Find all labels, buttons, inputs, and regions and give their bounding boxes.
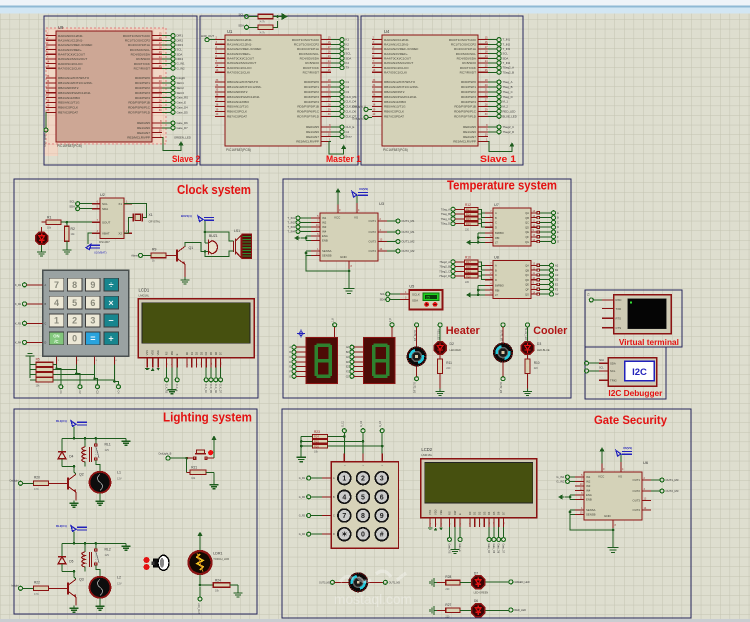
svg-text:RA3/AN3/VREF+: RA3/AN3/VREF+ [58,48,82,52]
svg-text:D: D [289,361,291,364]
resistor pack R5 [30,358,53,388]
node OUT2_M3 [651,489,679,493]
LED D7 [472,571,489,594]
wire SENS/GND to ground [569,510,615,544]
svg-text:RB7/ICSPDAT: RB7/ICSPDAT [227,115,247,119]
svg-text:RB4/AN11/KBI0: RB4/AN11/KBI0 [58,96,80,100]
svg-text:RE2/AN7: RE2/AN7 [463,135,476,139]
node 7Seg2_B [488,70,514,74]
node OUT1_M3 [651,478,679,482]
svg-text:SDA: SDA [69,205,75,209]
node SDA terminal (U5) [380,298,400,302]
frame: Slave 1 frame [361,16,523,165]
svg-text:K3: K3 [346,47,350,51]
node C3 [331,90,350,94]
svg-text:E: E [557,230,559,234]
frame: Temperature system frame [283,179,571,398]
svg-text:RD1/PSP1: RD1/PSP1 [304,85,319,89]
svg-text:D4: D4 [204,351,208,355]
svg-text:G_IN1: G_IN1 [177,62,186,66]
svg-text:D4: D4 [487,511,491,515]
node C (U7.QC) [539,220,559,224]
node CLK_D7 [331,114,357,118]
svg-text:0: 0 [361,532,365,539]
label Lighting system [163,411,252,425]
svg-text:Q3: Q3 [79,577,84,581]
svg-text:D: D [495,225,497,229]
svg-text:RD4/PSP4: RD4/PSP4 [461,100,476,104]
svg-text:7Seg2_D: 7Seg2_D [439,274,450,278]
svg-text:U2(VBAT): U2(VBAT) [94,251,107,255]
svg-text:RA2/AN2/VREF-/CVREF: RA2/AN2/VREF-/CVREF [384,47,418,51]
node F (U7.QF) [539,235,559,239]
node 7Seg_D [488,95,513,99]
svg-text:RB6/ICSPCLK: RB6/ICSPCLK [384,110,405,114]
wire button to power [213,440,215,458]
svg-text:LM016L: LM016L [421,453,432,457]
wire ENA/ENB to power [565,495,575,500]
svg-text:SCL: SCL [610,369,616,373]
resistor pack R23 [312,430,327,454]
diode D5 (flyback) [58,543,74,571]
svg-text:3: 3 [90,316,95,326]
svg-text:G_IN1: G_IN1 [556,475,565,479]
resistor SDA pull-up [238,24,273,35]
svg-text:L2: L2 [117,575,121,579]
svg-text:220: 220 [446,367,451,370]
frame: Slave 2 frame [44,16,197,165]
svg-text:SOUT: SOUT [102,220,111,224]
power bar for R5 [26,354,35,365]
node TX terminal (virtual terminal RXD) [588,293,603,302]
svg-text:SCL: SCL [599,367,604,370]
svg-text:RE0/AN5: RE0/AN5 [463,125,476,129]
svg-text:QF: QF [525,288,529,292]
svg-text:T_IN1: T_IN1 [287,216,295,220]
node InLight [11,584,33,590]
node DIR4 [162,57,183,61]
wire pull-ups to power [273,15,279,27]
svg-text:RC3/SCK/SCL: RC3/SCK/SCL [130,48,151,52]
node OUT1_M1 [387,219,415,223]
svg-text:QC: QC [525,273,529,277]
svg-text:RED_LED: RED_LED [514,609,526,612]
svg-text:RC0/T1OSO/T1CKI: RC0/T1OSO/T1CKI [449,38,476,42]
svg-text:7Seg2_D: 7Seg2_D [503,130,515,134]
svg-text:7Seg_B: 7Seg_B [441,212,451,216]
svg-text:E2: E2 [555,283,559,287]
node CLK_RS [331,95,357,99]
node Gate_D5 [162,110,188,114]
node 7seg1 D [289,360,306,364]
svg-text:VS: VS [618,475,622,479]
frame: Gate Security frame [282,409,691,618]
svg-text:RC6/TX/CK: RC6/TX/CK [303,66,320,70]
power symbol (LDR) [197,532,202,541]
svg-text:RA4/T0CKI/C1OUT: RA4/T0CKI/C1OUT [58,52,85,56]
svg-text:C: C [45,322,47,325]
wire Q1 collector to buzzer [185,242,204,251]
svg-text:K2: K2 [346,42,350,46]
svg-text:OUT2_M2: OUT2_M2 [402,249,415,253]
svg-text:✶: ✶ [341,531,347,539]
power symbol near U1 [341,145,346,154]
node CLK_D6 [331,109,357,113]
svg-text:D7: D7 [219,351,223,355]
frame: Lighting system frame [14,409,257,614]
svg-text:6: 6 [90,298,95,308]
svg-text:7Seg_C: 7Seg_C [441,217,451,221]
svg-text:E: E [458,513,462,515]
svg-text:CLK_D5: CLK_D5 [209,384,212,394]
resistor SCL pull-up [239,13,273,24]
svg-text:VDD: VDD [151,350,155,356]
svg-text:U3: U3 [379,201,385,206]
svg-text:LS1: LS1 [234,229,240,233]
svg-text:OUT2_M2: OUT2_M2 [499,382,502,394]
node Gate_D5 [492,538,496,554]
ground under Q3 [70,605,79,612]
frame: Clock system frame [14,179,258,398]
svg-text:R22: R22 [34,580,40,584]
svg-text:RA3/AN3/VREF+: RA3/AN3/VREF+ [227,52,251,56]
node SCL [488,52,508,56]
svg-text:RC7/RX/DT: RC7/RX/DT [134,66,150,70]
svg-text:C1: C1 [346,80,350,84]
svg-text:OUT1_M2: OUT1_M2 [499,330,502,342]
label Clock system [177,183,251,197]
svg-text:RED_LED: RED_LED [437,329,440,340]
svg-text:RA3/AN3/VREF+: RA3/AN3/VREF+ [384,52,408,56]
node keypad2 row G_R4 [299,532,335,536]
svg-text:BLUE_LED: BLUE_LED [524,328,527,340]
svg-text:D0: D0 [468,511,472,515]
svg-text:I2C Debugger: I2C Debugger [608,389,662,398]
svg-text:D3: D3 [482,511,486,515]
ground under LCD RW [450,547,459,554]
transistor Q3 [60,577,84,597]
node OUT1_M1 (motor top) [413,323,419,347]
svg-text:QG: QG [525,292,529,296]
svg-text:RE3/MCLR/VPP: RE3/MCLR/VPP [127,136,150,140]
svg-text:CRYSTAL: CRYSTAL [149,220,161,224]
svg-text:RD6/PSP6/P1C: RD6/PSP6/P1C [454,110,477,114]
svg-text:Gate_D7: Gate_D7 [502,544,505,554]
wire U2.VBAT down [88,233,92,244]
svg-text:CLK_D6: CLK_D6 [214,384,217,394]
node B2 (U8.QB) [539,268,558,272]
node Gate_E [458,538,462,553]
svg-text:SDA: SDA [177,52,183,56]
node keypad row K_R3 [15,321,46,325]
svg-text:VDD: VDD [434,509,438,515]
svg-text:Slave 2: Slave 2 [172,154,200,165]
node SCL terminal (I2C debugger) [585,369,600,373]
svg-text:D4: D4 [69,454,73,458]
svg-text:OUT1: OUT1 [633,478,641,482]
svg-text:220: 220 [445,588,450,591]
svg-text:BLUE_LED: BLUE_LED [503,114,517,118]
resistor R28 [437,575,471,591]
svg-text:M_1: M_1 [503,100,509,104]
svg-text:TX: TX [588,293,591,296]
svg-text:Q2: Q2 [79,472,84,476]
svg-text:K_R1: K_R1 [15,284,22,287]
svg-text:QA: QA [525,264,529,268]
resistor R21 [187,458,214,482]
RTC U2 DS1307 [92,193,132,244]
svg-text:OUT3_M3: OUT3_M3 [319,581,331,584]
power flag BUZ1(1) [181,214,214,222]
svg-text:5: 5 [72,298,77,308]
node SCL [162,48,182,52]
svg-text:U2: U2 [100,193,105,197]
node OutLight_A terminal at U4 [352,105,372,112]
svg-text:2: 2 [361,476,365,483]
svg-text:RA7/OSC1/CLKI: RA7/OSC1/CLKI [227,70,250,74]
svg-text:220: 220 [465,281,470,284]
svg-text:C4: C4 [346,130,350,134]
svg-text:RB1/AN10/INT1/C12IN3-: RB1/AN10/INT1/C12IN3- [384,85,419,89]
svg-text:IN4: IN4 [322,230,327,234]
svg-text:RA5/AN4/SS/C2OUT: RA5/AN4/SS/C2OUT [227,61,256,65]
svg-text:QE: QE [525,283,529,287]
svg-text:8: 8 [361,513,365,520]
svg-text:7Seg_D: 7Seg_D [441,222,451,226]
microcontroller U4 (PIC16F887) [372,29,488,152]
node CLK_D6 [214,378,218,394]
node K4 [331,61,349,65]
svg-text:RB5/AN13/T1G: RB5/AN13/T1G [384,105,406,109]
svg-text:RD5/PSP5/P1B: RD5/PSP5/P1B [454,105,476,109]
svg-text:R19: R19 [466,270,471,274]
svg-text:B2: B2 [555,268,559,272]
label Master 1 [326,154,362,165]
svg-text:Temperature system: Temperature system [447,179,557,193]
svg-text:RA6/OSC2/CLKO: RA6/OSC2/CLKO [58,62,83,66]
svg-text:×: × [108,298,113,308]
node 7seg1 F [290,369,306,373]
svg-text:T_IN4: T_IN4 [287,230,295,234]
svg-text:CLK_RS: CLK_RS [346,95,357,99]
svg-text:GND: GND [340,255,348,259]
svg-text:LCD1: LCD1 [139,287,150,292]
svg-text:BI/RBO: BI/RBO [495,231,504,235]
svg-text:Slave 1: Slave 1 [480,154,517,165]
motor M2 [493,343,513,363]
LDR LDR1 [189,551,230,574]
svg-text:9: 9 [90,280,95,290]
node 7Seg2_B [439,265,464,269]
node OUT1_M2 (motor top) [499,323,505,343]
node RED_LED (gate) [486,608,527,612]
node 7Seg_C [441,217,465,221]
svg-text:Virtual terminal: Virtual terminal [619,338,679,347]
svg-text:LT: LT [495,241,498,245]
node keypad2 row G_R1 [299,476,335,480]
svg-text:R21: R21 [191,465,197,469]
node T_IN2 [488,42,511,46]
svg-text:RC0/T1OSO/T1CKI: RC0/T1OSO/T1CKI [123,34,150,38]
svg-text:RA6/OSC2/CLKO: RA6/OSC2/CLKO [227,66,252,70]
svg-text:L1: L1 [117,470,121,474]
resistor pack R16 [465,256,479,285]
svg-text:#: # [380,532,384,539]
wire U8 lamp-test to power [477,285,485,296]
svg-text:OUT2_M3: OUT2_M3 [666,489,679,493]
svg-text:12V: 12V [117,581,122,585]
svg-text:RC3/SCK/SCL: RC3/SCK/SCL [299,52,320,56]
svg-text:C: C [333,515,335,518]
svg-text:/C: /C [54,339,58,344]
svg-text:OUT4: OUT4 [633,508,641,512]
svg-text:R25: R25 [314,440,319,444]
node T_IN4 [287,230,311,234]
svg-text:RC2/CCP1/P1A: RC2/CCP1/P1A [297,47,320,51]
node OutLight [9,479,33,485]
svg-text:R11: R11 [446,361,452,365]
svg-text:U8: U8 [494,256,499,260]
ground under LCD RW [167,387,176,394]
node Buzz [331,135,352,139]
svg-text:220: 220 [465,229,470,232]
node Gate_D4 [487,538,491,554]
resistor R1 [42,216,61,230]
LCD LCD1 (LM016L) [138,287,254,371]
svg-text:=: = [90,334,95,344]
svg-text:RC4/SDI/SDA: RC4/SDI/SDA [457,56,477,60]
svg-text:CLK_D4: CLK_D4 [204,384,207,394]
svg-text:CLK_D4: CLK_D4 [346,100,357,104]
resistor R22 [34,580,61,596]
svg-text:BUZ1: BUZ1 [209,234,218,238]
svg-text:RB6/ICSPCLK: RB6/ICSPCLK [58,106,79,110]
svg-text:SCL: SCL [239,13,245,17]
svg-text:12V: 12V [105,553,110,557]
svg-text:T_IN4: T_IN4 [503,61,511,65]
wire R23 to keypad columns [327,433,383,462]
origin marker [297,330,305,338]
svg-text:A2: A2 [555,263,559,267]
svg-text:U6: U6 [643,460,649,465]
node keypad column C2 [78,385,82,395]
transistor Q2 [60,472,84,492]
relay RL1 [73,438,111,467]
label GREEN_LED [174,135,191,139]
node E2 (U8.QE) [539,283,558,287]
svg-text:D2: D2 [450,342,454,346]
virtual terminal instrument [602,295,671,334]
node 7Seg2_A [488,66,514,70]
svg-text:RC3/SCK/SCL: RC3/SCK/SCL [456,52,477,56]
node 7seg1 A [289,345,306,349]
node keypad2 column G_C3 [380,420,384,432]
wire RE3 to power [162,137,181,150]
node 7seg1 E [289,365,306,369]
motor driver U6 (L298) [575,460,651,528]
node Gate_D6 [162,121,188,125]
svg-text:VCC: VCC [334,216,341,220]
node OUT2_M1 [387,230,415,234]
svg-text:1: 1 [54,316,59,326]
wire R23 commons to ground [300,437,312,455]
node K2 [331,42,349,46]
node SDA [162,52,182,56]
svg-text:M_2: M_2 [503,105,509,109]
svg-text:+: + [108,334,113,344]
svg-text:R1: R1 [47,216,51,220]
power symbol U3 VCC [335,188,340,205]
svg-text:CLK_E: CLK_E [175,384,178,392]
svg-text:Gate_RS: Gate_RS [448,544,451,554]
label Virtual terminal [619,338,679,347]
svg-text:RC6/TX/CK: RC6/TX/CK [134,62,151,66]
wire SENS/GND to ground [305,251,351,285]
svg-text:÷: ÷ [109,280,114,290]
svg-text:D6: D6 [497,511,501,515]
relay RL2 [73,543,111,572]
svg-text:RB4/AN11/KBI0: RB4/AN11/KBI0 [227,100,249,104]
node 7Seg_B [488,85,513,89]
svg-text:Gate_D6: Gate_D6 [497,544,500,554]
svg-text:R13: R13 [466,208,471,212]
svg-text:4: 4 [54,298,59,308]
svg-text:7Seg2_B: 7Seg2_B [439,265,450,269]
svg-text:RW: RW [170,350,174,355]
node Alarm terminal [131,253,151,257]
svg-text:X1: X1 [149,213,153,217]
svg-text:QB: QB [525,268,529,272]
svg-text:OUT2_M1: OUT2_M1 [413,382,416,394]
svg-text:RC7/RX/DT: RC7/RX/DT [303,70,319,74]
svg-text:RD4/PSP4: RD4/PSP4 [135,96,150,100]
svg-text:R12: R12 [465,203,471,207]
node 7Seg_A [488,80,513,84]
node 7Seg_C [488,90,513,94]
node 7seg2 F2 [346,369,363,373]
svg-text:LM016L: LM016L [139,293,150,297]
node C4 [331,130,350,134]
svg-text:QE: QE [525,230,529,234]
svg-text:G_R1: G_R1 [299,477,306,480]
label Slave 1 [480,154,517,165]
svg-text:4.7k: 4.7k [260,31,265,34]
svg-text:RD2/PSP2: RD2/PSP2 [304,90,319,94]
ground U3 [344,285,355,293]
svg-text:R17: R17 [466,260,471,264]
svg-text:RD3/PSP3: RD3/PSP3 [135,91,150,95]
power flag RL2(C1) [56,524,87,532]
svg-text:DIR1: DIR1 [177,34,184,38]
svg-text:CTS: CTS [616,326,622,330]
node 7seg1 common [333,317,337,337]
svg-text:GREEN_LED: GREEN_LED [174,135,191,139]
svg-text:D3: D3 [199,351,203,355]
svg-text:QB: QB [525,216,529,220]
svg-text:ENA: ENA [586,493,592,497]
svg-text:D2: D2 [195,351,199,355]
resistor R2 [65,222,76,247]
label Heater [446,325,481,337]
wire to button [170,457,193,460]
svg-text:RC7/RX/DT: RC7/RX/DT [460,70,476,74]
svg-text:D2: D2 [555,278,559,282]
svg-text:RB2/AN8/INT2: RB2/AN8/INT2 [384,90,405,94]
svg-text:RED_LED: RED_LED [503,110,516,114]
svg-text:RC2/CCP1/P1A: RC2/CCP1/P1A [128,43,151,47]
svg-text:K_R3: K_R3 [15,322,22,325]
decoder U7 (7448) [485,203,539,246]
